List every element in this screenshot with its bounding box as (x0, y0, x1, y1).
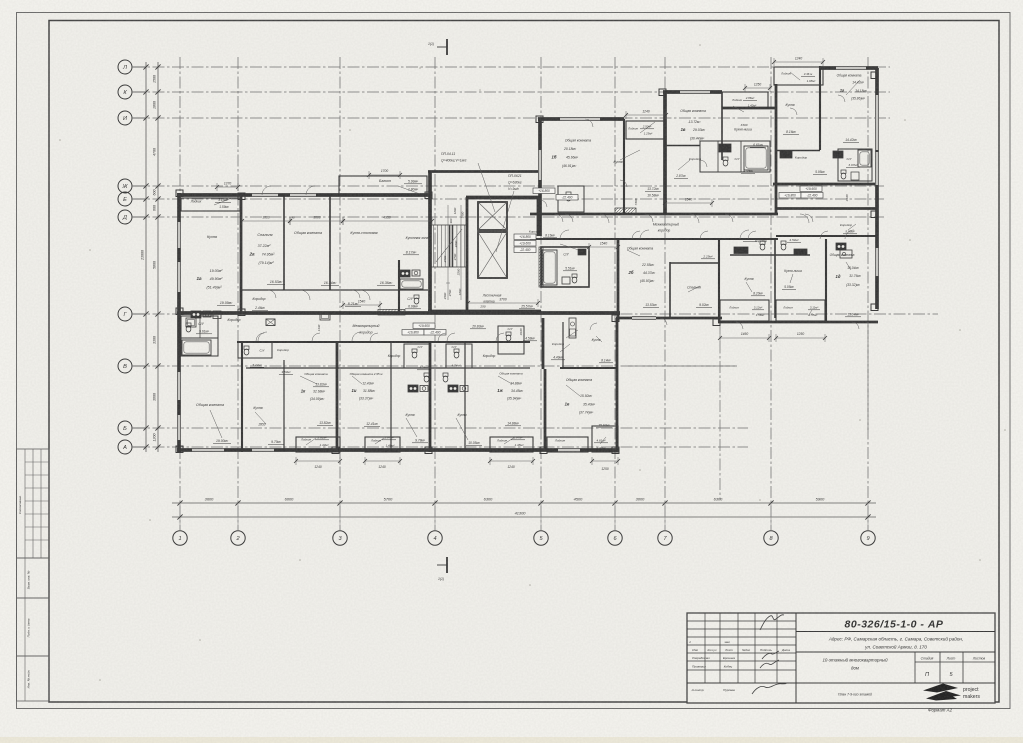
kitchen top wall (722, 107, 776, 110)
dimension 1250 loggia 1v (745, 87, 770, 89)
dimension 1240 bottom 1 (296, 460, 340, 462)
bedroom top wall (670, 262, 720, 264)
leader line (375, 438, 384, 444)
door swing arc (438, 333, 446, 341)
stamp cells divider (24, 558, 26, 701)
loggia 1g (774, 67, 823, 85)
stamp mini table row line (25, 461, 49, 463)
stair core bottom wall (428, 310, 541, 314)
washer left (186, 318, 196, 327)
stair core left wall (428, 171, 432, 313)
paper speck (59, 139, 61, 141)
title block row line (687, 628, 796, 630)
stair core right wall (537, 197, 540, 236)
wc 1v (723, 157, 728, 160)
apartment 1b left wall (538, 119, 542, 236)
window bottom wall (252, 448, 274, 451)
wall pilaster (612, 315, 619, 322)
wall pilaster (871, 211, 878, 218)
horizontal axis line Е (133, 198, 884, 200)
title block signatures (760, 615, 784, 630)
stove hall b (794, 249, 807, 255)
leader line (600, 437, 606, 444)
axis circle 8 (764, 531, 778, 545)
door swing arc (268, 290, 276, 298)
wc su mid 2 (454, 349, 459, 352)
leader line (560, 344, 570, 352)
bathtub 1g (858, 150, 871, 167)
outer wall bottom (177, 448, 618, 452)
window right wall (875, 248, 878, 276)
title block row line (687, 660, 796, 662)
vertical axis line 9 (867, 57, 869, 530)
wc cluster 2 (244, 346, 249, 349)
dimension tick (768, 500, 773, 505)
dimension 1240 loggia 1b (626, 114, 666, 116)
leader line (733, 106, 744, 112)
horizontal axis line К (133, 91, 890, 93)
leader line (746, 282, 752, 292)
project makers logo (923, 684, 958, 693)
horizontal axis line Б (133, 427, 748, 429)
title block row line (687, 652, 796, 654)
door swing arc (820, 231, 828, 239)
door swing arc (748, 231, 756, 239)
total dimension tick (865, 514, 870, 519)
apartment 1b right wall (623, 119, 625, 214)
dimension 1240 bottom 2 (365, 460, 400, 462)
door swing arc (262, 186, 271, 195)
sink 1g (851, 172, 859, 180)
electric box (266, 319, 275, 326)
kitchen counter 1d (840, 250, 852, 258)
window 1b left wall (538, 150, 541, 180)
door leaf arc (845, 238, 854, 239)
title block row line long (687, 682, 995, 684)
wc hall b (781, 241, 786, 244)
left dimension tick (143, 64, 148, 69)
kitchen counter apt1a (191, 311, 201, 318)
stamp mini table row line (25, 500, 49, 502)
axis circle leader А (132, 446, 146, 448)
wall pilaster (540, 447, 547, 454)
bathtub dining zone (400, 279, 423, 289)
axis circle Ж (118, 179, 132, 193)
stamp cell Подп. и дата (17, 598, 50, 656)
band partition wall (246, 367, 530, 369)
leader line (306, 438, 316, 445)
outer wall top left block (177, 193, 432, 197)
axis circle leader К (132, 91, 146, 93)
loggia 1b (626, 121, 666, 139)
dimension 1240 bottom 3 (490, 460, 533, 462)
axis circle leader В (132, 365, 146, 367)
title block row line (687, 644, 796, 646)
door leaf arc (800, 214, 809, 215)
apartment 1v top wall (663, 90, 722, 94)
apartment 1g top wall (820, 66, 878, 70)
bathtub 2b (542, 250, 557, 285)
axis circle Г (118, 307, 132, 321)
paper speck (235, 91, 237, 93)
window left wall (177, 222, 180, 248)
leader line (808, 310, 812, 316)
left dimension tick (143, 214, 148, 219)
apartment 1v left wall (663, 92, 667, 214)
1g apartment bottom wall (773, 183, 877, 186)
apartment 1d left wall (825, 239, 827, 322)
bathroom su 5 (498, 326, 524, 354)
vertical axis line 3 (339, 57, 341, 530)
left dimension tick (155, 115, 160, 120)
horizontal axis line А (133, 446, 748, 448)
window 1g top wall (836, 66, 866, 69)
paper speck (1004, 429, 1006, 431)
wall at axis 7 lower (718, 239, 720, 322)
paper speck (349, 129, 351, 131)
corridor wall left block (242, 289, 428, 291)
stove bottom 1 (408, 385, 418, 392)
axis circle leader Б (132, 427, 146, 429)
lower corridor wall (237, 341, 530, 343)
loggia bottom 3 (490, 437, 533, 452)
axis extension to circle (339, 503, 341, 530)
wc left (186, 323, 191, 326)
elevation marks core (514, 234, 536, 240)
axis circle 4 (428, 531, 442, 545)
dimension tick (337, 500, 342, 505)
left dimension tick (155, 89, 160, 94)
wc su mid 1 (412, 349, 417, 352)
kitchen counter dining zone (400, 270, 410, 277)
window right wall (875, 152, 878, 185)
leader line (496, 191, 514, 252)
wall pilaster (238, 309, 245, 316)
window top wall (252, 193, 278, 196)
title block column line (719, 613, 721, 683)
core inner dim line (447, 205, 449, 300)
horizontal axis line Л (133, 66, 890, 68)
door swing arc (700, 231, 708, 239)
balcony (339, 176, 427, 195)
bathroom 1g (838, 149, 872, 181)
door swing arc (620, 180, 627, 187)
bathroom left rooms (181, 316, 218, 338)
title block column line (776, 613, 778, 683)
leader line (688, 286, 700, 292)
leader line (504, 437, 515, 444)
dimension row 4950 (343, 220, 432, 222)
outer wall left (177, 193, 181, 452)
bathtub 1v (744, 146, 768, 170)
wall pilaster (536, 116, 543, 123)
leader line (640, 122, 655, 133)
stair core upper wall (428, 170, 541, 173)
washer hall a (734, 247, 748, 254)
wall pilaster (871, 72, 878, 79)
leader line (498, 376, 512, 384)
corridor bottom wall (530, 238, 778, 240)
door leaf arc (740, 238, 749, 239)
horizontal axis line Ж (133, 185, 884, 187)
elevation marks left corridor (533, 188, 555, 194)
door swing arc (736, 322, 743, 329)
door swing arc (585, 119, 593, 127)
left dimension tick (155, 444, 160, 449)
leader line (456, 418, 468, 440)
stove bottom 2 (448, 385, 458, 392)
left dimension tick (155, 64, 160, 69)
scan grain overlay (0, 0, 1, 1)
stamp mini table row line (25, 474, 49, 476)
horizontal axis line Г (133, 313, 938, 315)
left dimension tick (155, 183, 160, 188)
paper speck (759, 499, 761, 501)
door leaf arc (690, 214, 699, 215)
axis extension to circle (179, 503, 181, 530)
door leaf arc (600, 214, 609, 215)
dimension row 3030 (242, 220, 290, 222)
paper speck (639, 469, 641, 471)
paper speck (859, 419, 861, 421)
stamp mini table row line (25, 487, 49, 489)
washer 1g (833, 151, 843, 158)
left dimension tick (143, 444, 148, 449)
dimension tick (432, 500, 437, 505)
paper speck (699, 44, 701, 46)
elevation marks right corridor (800, 186, 822, 192)
leader line (846, 80, 860, 95)
dimension tick (177, 500, 182, 505)
axis circle 5 (534, 531, 548, 545)
wc hall a (760, 241, 765, 244)
leader line (620, 150, 640, 160)
wc su 5 (506, 332, 511, 335)
leader line (678, 160, 690, 170)
bathroom 1b (558, 186, 584, 212)
title block column line (704, 613, 706, 683)
axis circle Д (118, 210, 132, 224)
axis circle Б (118, 421, 132, 435)
dimension 1540 mid (343, 304, 380, 306)
left dimension tick (143, 183, 148, 188)
wall pilaster (425, 447, 432, 454)
horizontal axis line Д (133, 216, 884, 218)
dimension 1240 loggia 1g (774, 61, 823, 63)
paper speck (959, 329, 961, 331)
stair flight (433, 225, 435, 267)
axis circle 3 (333, 531, 347, 545)
door swing arc (632, 231, 640, 239)
leader line (790, 274, 793, 283)
leader line (566, 330, 578, 338)
corridor top wall (530, 213, 778, 216)
apartment 1v right wall (721, 92, 723, 160)
bottom total dimension line (172, 516, 876, 518)
bathroom cluster 2 (238, 342, 272, 358)
axis circle leader Е (132, 198, 146, 200)
vertical axis line 1 (179, 57, 181, 530)
loggia 1d b (776, 300, 825, 321)
left dimension tick (155, 214, 160, 219)
small tick set core (446, 224, 450, 226)
door leaf arc (300, 290, 310, 291)
window bottom wall (192, 448, 224, 451)
axis circle leader Л (132, 66, 146, 68)
dimension 1250 bottom 4 (592, 460, 618, 462)
kitchen icons 2b (836, 243, 846, 250)
axis circle И (118, 111, 132, 125)
dimension 1700 (369, 174, 400, 176)
bottom apt partition D (390, 341, 392, 450)
section mark top (446, 39, 448, 55)
vertical axis line 5 (540, 57, 542, 530)
dimension 1250 lodge (776, 337, 825, 339)
hatched wall piece su (539, 247, 543, 287)
apartment 2b left wall (617, 239, 620, 320)
wall left of 1e kitchen (542, 318, 545, 369)
left dimension tick (143, 363, 148, 368)
stamp mini table row line (25, 526, 49, 528)
dimension 1540 right (665, 202, 712, 204)
dimension row 3000 (290, 220, 343, 222)
title block line under number (796, 631, 995, 633)
hatched wall piece mid (378, 310, 405, 316)
dimension tick (612, 500, 617, 505)
dimension tick (538, 500, 543, 505)
stamp cell Взам. инв. № (17, 558, 50, 598)
corridor top 1v partition (665, 145, 700, 147)
leader line (566, 385, 580, 396)
kitchen counter 1e (569, 318, 576, 338)
door leaf arc (258, 340, 267, 341)
wall kitchen/1g upper (819, 66, 821, 150)
bottom scan strip (0, 737, 1023, 743)
leader line (398, 186, 420, 194)
stamp mini table column line (24, 449, 26, 558)
apartment 1e right wall (616, 318, 619, 452)
wc su mid 3 (424, 373, 429, 376)
paper speck (89, 249, 91, 251)
right wall window band (875, 120, 878, 150)
partition kitchen/niche (774, 239, 776, 318)
bathtub room left (181, 338, 218, 356)
axis circle Е (118, 192, 132, 206)
paper speck (479, 89, 481, 91)
wall pilaster (871, 304, 878, 311)
main mid wall (177, 311, 620, 315)
wall pilaster (176, 446, 183, 453)
paper speck (199, 639, 201, 641)
wall kitchen/bedroom (240, 195, 243, 313)
door swing arc (590, 323, 597, 330)
paper speck (909, 239, 911, 241)
left dimension tick (155, 196, 160, 201)
title block stage header line (915, 661, 995, 663)
stamp mini table column line (32, 449, 34, 558)
door swing arc (312, 333, 320, 341)
door leaf arc (447, 340, 455, 341)
dimension 1460 lodge (720, 337, 769, 339)
dimension 1540 2b (589, 246, 618, 248)
leader line (790, 72, 800, 80)
axis B dash extension (628, 365, 737, 367)
wall pilaster (713, 319, 720, 326)
leader line (478, 163, 495, 212)
left dimension tick (143, 425, 148, 430)
axis circle 9 (861, 531, 875, 545)
bathroom 1v cluster (700, 141, 770, 172)
leader line (406, 418, 417, 437)
dimension tick (235, 500, 240, 505)
axis circle 7 (658, 531, 672, 545)
axis circle А (118, 440, 132, 454)
apartment 1e left wall (544, 369, 547, 450)
outer wall right (875, 68, 879, 309)
door swing arc (496, 333, 504, 341)
wall pilaster (659, 89, 666, 96)
left dimension tick (155, 363, 160, 368)
right mid block bottom wall (616, 317, 722, 320)
axis circle 2 (231, 531, 245, 545)
dimension 1370 (217, 186, 238, 188)
partition living/dining (329, 195, 331, 290)
paper speck (149, 519, 151, 521)
axis extension to circle (867, 503, 869, 530)
loggia bottom 2 (365, 437, 400, 452)
paper speck (419, 67, 421, 69)
axis extension to circle (770, 503, 772, 530)
axis circle leader Г (132, 313, 146, 315)
door swing arc (306, 186, 315, 195)
left dimension tick (155, 425, 160, 430)
door swing arc (660, 318, 667, 325)
door swing arc (540, 200, 547, 207)
paper speck (299, 559, 301, 561)
dark appliance 2b (578, 249, 586, 255)
axis extension to circle (664, 503, 666, 530)
axis line x720 lower (719, 322, 721, 500)
door leaf arc (640, 238, 649, 239)
left dimension tick (143, 196, 148, 201)
leader line (352, 376, 362, 384)
title block column line (737, 613, 739, 683)
title block column line (754, 613, 756, 683)
vertical axis line 6 (614, 57, 616, 530)
axis extension to circle (237, 503, 239, 530)
vertical axis line 8 (770, 57, 772, 530)
axis circle К (118, 85, 132, 99)
axis circle В (118, 359, 132, 373)
bottom apt wall E (429, 341, 432, 452)
leader line (596, 336, 602, 342)
door leaf arc (352, 340, 361, 341)
sink 2b (562, 277, 570, 284)
washer 1v (719, 144, 731, 152)
door swing arc (256, 333, 264, 341)
bottom apt partition B (283, 360, 285, 450)
axis circle leader Д (132, 216, 146, 218)
elevator block top wall (466, 196, 540, 200)
window left wall (177, 262, 180, 292)
hatched wall piece corridor (615, 208, 636, 214)
loggia bottom 1 (296, 437, 340, 452)
paper speck (529, 584, 531, 586)
washer 1g hall (780, 151, 792, 158)
bathtub left (182, 340, 211, 355)
paper speck (979, 559, 981, 561)
loggia 1v (722, 92, 768, 108)
